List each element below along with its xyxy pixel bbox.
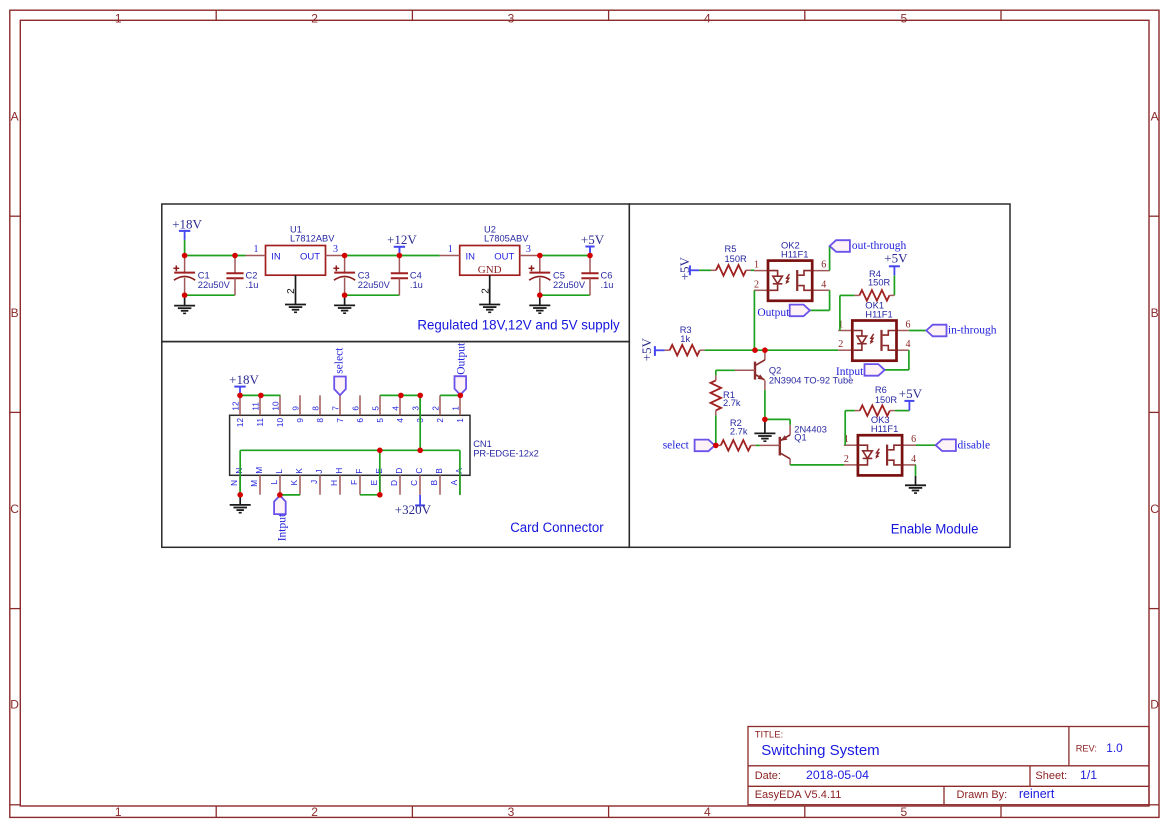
svg-text:2.7k: 2.7k [730, 426, 748, 436]
svg-text:6: 6 [821, 260, 826, 271]
svg-text:OUT: OUT [300, 252, 320, 263]
svg-text:N: N [230, 480, 239, 486]
svg-text:C: C [410, 480, 419, 486]
svg-text:C: C [1150, 502, 1159, 516]
svg-text:Enable Module: Enable Module [891, 521, 979, 537]
svg-text:C5: C5 [553, 271, 565, 281]
svg-text:9: 9 [296, 418, 305, 423]
svg-text:1: 1 [451, 406, 460, 411]
svg-text:B: B [435, 468, 444, 474]
svg-text:select: select [663, 439, 690, 451]
svg-text:J: J [310, 480, 319, 484]
svg-text:150R: 150R [868, 277, 891, 287]
svg-text:3: 3 [526, 244, 531, 255]
svg-text:2: 2 [844, 454, 849, 465]
svg-text:D: D [390, 480, 399, 486]
svg-text:M: M [250, 480, 259, 487]
svg-text:C1: C1 [198, 271, 210, 281]
svg-text:Output: Output [455, 342, 467, 375]
svg-text:C: C [415, 468, 424, 474]
svg-text:M: M [255, 467, 264, 474]
svg-text:22u50V: 22u50V [358, 280, 391, 290]
svg-text:R6: R6 [875, 385, 887, 395]
svg-text:D: D [10, 698, 19, 712]
svg-text:9: 9 [291, 406, 300, 411]
svg-text:IN: IN [466, 252, 476, 263]
svg-text:22u50V: 22u50V [553, 280, 586, 290]
svg-text:1: 1 [448, 244, 453, 255]
svg-text:IN: IN [271, 252, 281, 263]
svg-text:L: L [275, 469, 284, 474]
svg-text:12: 12 [236, 418, 245, 428]
svg-text:C2: C2 [246, 271, 258, 281]
svg-text:+320V: +320V [395, 502, 432, 517]
svg-text:Regulated 18V,12V and 5V suppl: Regulated 18V,12V and 5V supply [417, 318, 620, 334]
svg-text:10: 10 [271, 401, 280, 411]
svg-text:1k: 1k [680, 334, 690, 344]
svg-text:K: K [290, 479, 299, 485]
svg-text:10: 10 [276, 418, 285, 428]
svg-text:Sheet:: Sheet: [1035, 770, 1067, 782]
svg-text:4: 4 [704, 805, 711, 819]
svg-text:Drawn By:: Drawn By: [957, 789, 1008, 801]
svg-text:1: 1 [838, 320, 843, 331]
svg-text:2: 2 [838, 339, 843, 350]
svg-text:2: 2 [311, 805, 318, 819]
svg-text:3: 3 [411, 406, 420, 411]
svg-text:4: 4 [391, 406, 400, 411]
svg-text:H11F1: H11F1 [871, 423, 898, 434]
svg-text:A: A [450, 479, 459, 485]
svg-text:2: 2 [436, 418, 445, 423]
svg-text:Switching System: Switching System [761, 742, 879, 759]
svg-text:150R: 150R [875, 395, 898, 405]
svg-text:disable: disable [958, 439, 991, 451]
svg-text:+5V: +5V [581, 232, 605, 247]
svg-text:+18V: +18V [172, 216, 202, 231]
svg-text:11: 11 [251, 402, 260, 411]
svg-text:2: 2 [286, 288, 297, 294]
svg-text:7: 7 [331, 406, 340, 411]
svg-text:4: 4 [906, 339, 911, 350]
svg-text:H11F1: H11F1 [865, 308, 892, 319]
svg-text:2: 2 [431, 406, 440, 411]
svg-text:8: 8 [316, 418, 325, 423]
svg-text:select: select [333, 347, 345, 374]
svg-text:3: 3 [508, 805, 515, 819]
svg-text:L7805ABV: L7805ABV [484, 234, 529, 244]
svg-text:5: 5 [900, 12, 907, 26]
svg-text:R5: R5 [725, 244, 737, 254]
svg-text:+18V: +18V [229, 372, 259, 387]
svg-text:Date:: Date: [755, 770, 781, 782]
svg-text:2: 2 [311, 12, 318, 26]
svg-text:H: H [335, 468, 344, 474]
svg-text:4: 4 [911, 454, 916, 465]
svg-text:GND: GND [478, 264, 502, 276]
svg-text:1.0: 1.0 [1106, 741, 1123, 755]
svg-text:2: 2 [754, 279, 759, 290]
svg-text:1: 1 [254, 244, 259, 255]
svg-text:1: 1 [456, 418, 465, 423]
svg-text:TITLE:: TITLE: [755, 730, 784, 741]
svg-text:+5V: +5V [639, 337, 654, 361]
svg-text:F: F [355, 469, 364, 474]
svg-text:B: B [11, 306, 19, 320]
svg-text:L7812ABV: L7812ABV [290, 234, 335, 244]
svg-text:K: K [295, 468, 304, 474]
svg-text:PR-EDGE-12x2: PR-EDGE-12x2 [473, 448, 539, 458]
svg-text:H: H [330, 480, 339, 486]
svg-text:C4: C4 [410, 271, 422, 281]
svg-text:+12V: +12V [387, 232, 417, 247]
svg-text:Output: Output [757, 307, 790, 319]
svg-text:6: 6 [356, 418, 365, 423]
svg-text:+5V: +5V [884, 251, 908, 266]
svg-text:+5V: +5V [899, 386, 923, 401]
svg-text:150R: 150R [725, 254, 748, 264]
svg-text:D: D [395, 468, 404, 474]
svg-text:6: 6 [351, 406, 360, 411]
svg-text:OUT: OUT [494, 252, 514, 263]
svg-text:5: 5 [900, 805, 907, 819]
svg-text:A: A [1151, 110, 1159, 124]
svg-text:8: 8 [311, 406, 320, 411]
svg-text:3: 3 [508, 12, 515, 26]
svg-text:J: J [315, 470, 324, 474]
svg-text:2018-05-04: 2018-05-04 [806, 768, 869, 782]
svg-text:E: E [370, 479, 379, 485]
svg-text:Card Connector: Card Connector [510, 520, 604, 536]
svg-text:EasyEDA V5.4.11: EasyEDA V5.4.11 [755, 789, 842, 801]
svg-text:H11F1: H11F1 [781, 248, 808, 259]
svg-text:C3: C3 [358, 271, 370, 281]
svg-text:4: 4 [704, 12, 711, 26]
svg-text:4: 4 [821, 279, 826, 290]
svg-text:reinert: reinert [1019, 787, 1055, 801]
svg-text:11: 11 [256, 418, 265, 427]
svg-text:1: 1 [115, 805, 122, 819]
svg-text:Q1: Q1 [794, 433, 806, 443]
svg-text:7: 7 [336, 418, 345, 423]
svg-text:in-through: in-through [948, 325, 997, 337]
svg-text:B: B [430, 479, 439, 485]
svg-text:1: 1 [115, 12, 122, 26]
svg-text:F: F [350, 480, 359, 485]
svg-text:.1u: .1u [601, 280, 614, 290]
svg-text:D: D [1150, 698, 1159, 712]
svg-text:L: L [270, 479, 279, 484]
svg-text:5: 5 [376, 418, 385, 423]
svg-text:3: 3 [333, 244, 338, 255]
svg-text:6: 6 [906, 320, 911, 331]
svg-text:12: 12 [231, 401, 240, 411]
svg-text:22u50V: 22u50V [198, 280, 231, 290]
svg-text:C6: C6 [601, 271, 613, 281]
svg-text:REV:: REV: [1076, 744, 1097, 754]
svg-text:.1u: .1u [410, 280, 423, 290]
svg-text:Intput: Intput [276, 513, 288, 541]
svg-text:4: 4 [396, 418, 405, 423]
svg-text:2N3904 TO-92 Tube: 2N3904 TO-92 Tube [769, 375, 853, 385]
svg-text:A: A [11, 110, 19, 124]
svg-text:2.7k: 2.7k [723, 398, 741, 408]
svg-text:B: B [1151, 306, 1159, 320]
svg-text:C: C [10, 502, 19, 516]
svg-text:.1u: .1u [246, 280, 259, 290]
svg-text:1: 1 [754, 260, 759, 271]
svg-text:5: 5 [371, 406, 380, 411]
svg-text:1/1: 1/1 [1080, 768, 1097, 782]
svg-text:2: 2 [480, 288, 491, 294]
svg-text:6: 6 [911, 434, 916, 445]
svg-text:Q2: Q2 [769, 366, 781, 376]
